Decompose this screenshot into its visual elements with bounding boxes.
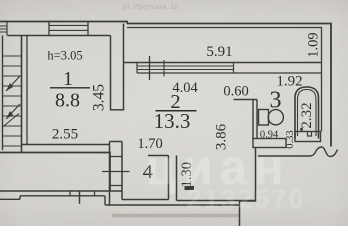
svg-text:ул. Иркутская, 12: ул. Иркутская, 12 [122, 4, 178, 11]
arrowhead stair 1 [6, 83, 13, 91]
shaft middle rung extended [102, 171, 130, 173]
staircase diagonal 2 with arrow [6, 104, 20, 119]
balcony bottom line [124, 62, 322, 64]
svg-text:5.91: 5.91 [206, 44, 232, 60]
bottom faint shadow band [112, 214, 240, 217]
bathtub inner [298, 90, 317, 137]
window band to balcony [137, 66, 234, 70]
room4 bottom inner line [122, 199, 169, 201]
room1 bottom wall [22, 144, 110, 146]
staircase arrowheads [6, 83, 13, 119]
svg-text:h=3.05: h=3.05 [47, 49, 82, 63]
door dash near room4 [185, 186, 195, 190]
wall rect B below tub [295, 132, 321, 142]
top-left wall inner line [8, 35, 111, 37]
window W1 top-left [0, 22, 7, 36]
svg-text:2132570: 2132570 [186, 184, 305, 214]
room4 top wall [148, 155, 169, 157]
fraction bar room 2 [156, 110, 197, 112]
toilet tank [259, 110, 269, 126]
exterior top-left outer wall [0, 22, 127, 24]
cut line with squiggle [258, 147, 338, 157]
svg-text:0.60: 0.60 [223, 84, 248, 100]
fraction bar room 1 [50, 87, 90, 88]
toilet bowl [268, 110, 283, 125]
bottom-left slab [0, 153, 110, 192]
porch step ticks [70, 191, 95, 196]
svg-text:2.32: 2.32 [299, 102, 315, 128]
window W2 top-left [49, 22, 88, 36]
svg-text:1: 1 [63, 68, 73, 90]
svg-text:13.3: 13.3 [154, 109, 191, 133]
wall between room1 and room2/balcony (thick, two faces) [110, 36, 112, 111]
svg-text:1.09: 1.09 [306, 32, 322, 57]
exterior top-right inner line [127, 28, 322, 132]
room2 bottom inner line [177, 200, 256, 202]
arrowhead stair 2 [6, 111, 13, 119]
svg-text:2.55: 2.55 [52, 126, 78, 142]
right boundary below bathroom [240, 148, 256, 227]
svg-text:8.8: 8.8 [55, 90, 80, 112]
shaft rungs [110, 157, 123, 186]
exterior top-right outer wall [127, 24, 331, 147]
bottom exterior wall line [105, 204, 240, 206]
room1 left wall (double) [21, 36, 23, 154]
stub wall 0.60 [234, 99, 258, 101]
room4 right wall (double) [169, 156, 177, 201]
slab bottom long line [0, 190, 123, 192]
bathroom left wall (double) [253, 100, 257, 140]
window mullion short tick [163, 60, 165, 77]
vent shaft [110, 141, 123, 143]
staircase left boundary [2, 36, 4, 151]
wall rect A below 0.94 [253, 139, 286, 148]
bathtub outer [295, 87, 319, 139]
dot below 2.32 [300, 128, 303, 131]
svg-text:0.94: 0.94 [260, 130, 279, 141]
tick inside rect B [308, 132, 312, 137]
svg-text:3: 3 [270, 88, 282, 114]
svg-text:3.45: 3.45 [90, 84, 107, 111]
window mullion tall tick [149, 56, 151, 80]
staircase rungs [3, 56, 22, 146]
porch steps lower lines [0, 196, 105, 200]
staircase diagonal 3 [3, 114, 20, 128]
staircase diagonal 1 with arrow [6, 76, 20, 91]
